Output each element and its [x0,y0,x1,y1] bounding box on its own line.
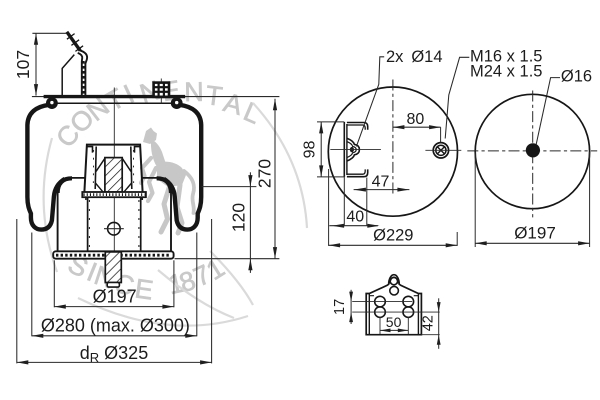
top view outer circle Ø229 [328,87,457,216]
center hole Ø16 (filled) [526,143,540,157]
bracket knob inner rim [390,277,398,283]
stud end collar [107,283,119,288]
bottom view vertical centerline [532,91,534,218]
dimension 42 [438,298,440,349]
air port M16/M24 (circle with cross) [433,143,448,158]
piston flange plate [82,192,146,197]
bracket plate outline [366,275,421,335]
right bead ring [171,97,183,109]
svg-text:Ø16: Ø16 [561,68,592,86]
svg-text:107: 107 [13,50,33,79]
svg-text:17: 17 [332,299,348,315]
top bracket web hatch [82,61,84,96]
bolt hole top-right [403,296,414,307]
dimension 17 (hole row spacing) [350,290,352,324]
cup cavity slant left [96,158,105,171]
cup rolled edge right [135,147,140,153]
top view bracket top arm [347,123,368,130]
dimension 40 [329,225,378,227]
watermark: Continental logo (gray ring text CONTINENTAL / SINCE 1871, arcs, horse) [50,75,265,306]
top view bracket bottom arm [347,169,368,176]
cup rolled edge left [87,147,92,153]
svg-text:47: 47 [372,174,390,191]
leader line Ø16 [536,78,560,145]
dimension 50 (hole spacing) [379,317,381,334]
piston inner wall left [87,197,89,251]
bracket second hole [390,286,399,295]
dimension 120 (piston height) [249,172,251,273]
dimension Ø280 max Ø300 (bellows diameter) [31,233,33,337]
dimension 107 (bracket height) [35,33,37,95]
top view bracket tab hole [350,147,354,152]
top view vertical centerline [392,80,394,197]
svg-text:Ø197: Ø197 [514,223,556,242]
left bead ring [46,97,58,109]
leader line 2x Ø14 [356,57,384,147]
dimension dR Ø325 (roll diameter) [16,219,18,363]
plate bottom extension [421,334,439,336]
piston outer wall right [170,191,172,251]
top view bracket tab [347,138,360,161]
top bracket left outline [62,55,74,97]
cup cavity slant right [122,158,131,171]
cup inner wall left [95,147,96,190]
piston cup outline [84,145,142,192]
piston bottom plate [53,251,173,258]
svg-text:98: 98 [301,141,318,159]
dimension Ø197 (piston diameter) [53,260,55,307]
bellows outer wall left (rubber, thick) [27,105,64,230]
cup inner wall right [131,147,132,190]
svg-text:42: 42 [421,315,437,331]
flange end tab left [85,197,87,200]
dimension Ø197 (bottom plate diameter) [474,152,476,247]
dimension 98 (bracket length, top view) [317,121,344,123]
svg-text:Ø197: Ø197 [93,287,137,307]
bellows outer wall right (rubber, thick) [164,105,201,230]
piston top surface right [142,177,162,179]
leader line M16/M24 [445,57,469,138]
hole row centerline bottom [352,311,440,313]
top view bracket centerline [330,149,381,151]
piston inner wall right [140,197,142,251]
piston outer wall left [57,191,59,251]
hole row centerline top [352,301,412,303]
svg-text:80: 80 [407,111,425,128]
svg-text:40: 40 [346,208,364,225]
bottom view circle Ø197 [475,94,589,208]
dimension 47 [354,189,410,191]
centerline of side view [113,88,115,270]
svg-text:270: 270 [254,159,274,188]
center target mark [108,222,121,235]
cup lower slant left [95,183,103,192]
bellows top edge under plate [57,102,172,104]
top view bracket spine [343,122,345,177]
dimension 80 (port offset) [393,126,441,128]
piston top-right corner (thick) [157,178,171,193]
top plate (thick) [44,95,186,98]
top bracket hatched flange (diagonal) [67,32,80,51]
bracket top hole [390,277,397,284]
bracket plate inner edges [368,294,370,335]
bolt hole bottom-right [403,307,414,318]
svg-text:Ø229: Ø229 [373,227,413,245]
top bracket curl and web [80,50,87,96]
bottom view horizontal centerline [467,150,597,152]
air fitting (threaded) [154,83,169,97]
svg-text:M24 x 1.5: M24 x 1.5 [470,63,542,81]
air fitting centerline [160,79,162,104]
svg-text:50: 50 [386,314,402,330]
svg-text:120: 120 [228,203,248,232]
dimension 270 (design height) [274,99,276,259]
top plate extension line to 270 dim [32,96,280,98]
svg-text:2x Ø14: 2x Ø14 [386,48,443,66]
piston top-left corner (thick) [58,178,72,193]
dimension Ø229 (top plate diameter) [328,169,330,246]
piston top surface left [66,177,85,179]
bolt hole top-left [375,296,386,307]
cup lower slant right [124,183,132,192]
bolt stud in cup (hatched) [105,158,122,192]
flange end tab right [141,197,143,200]
bolt hole bottom-left [375,307,386,318]
svg-text:N: N [184,77,204,107]
bottom threaded stud (hatched) [105,252,121,283]
svg-text:Ø280 (max. Ø300): Ø280 (max. Ø300) [41,316,190,336]
